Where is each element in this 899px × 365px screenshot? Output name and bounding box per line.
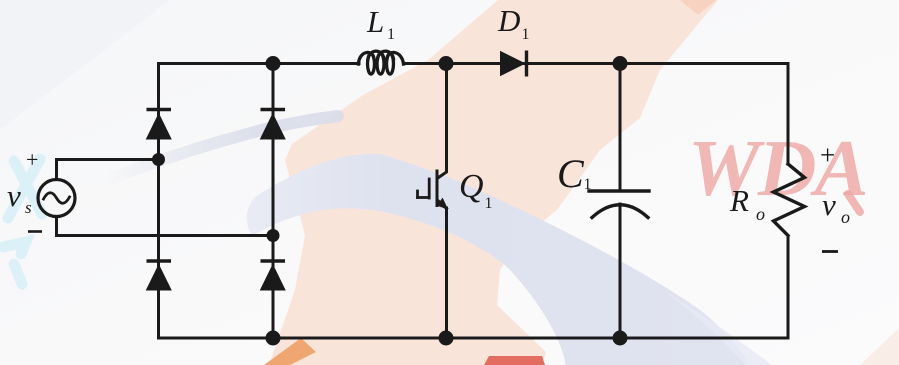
node junction top-2 (L1/Q1) — [439, 56, 454, 71]
diode bridge bottom-left — [147, 261, 172, 290]
lavender thin arc — [112, 116, 338, 178]
wire top rail right of inductor — [404, 62, 789, 65]
node junction bottom-1 — [266, 331, 281, 346]
wire right column bottom — [787, 236, 790, 338]
blue outer wisp bottom — [660, 288, 772, 365]
label vo — [822, 187, 850, 227]
source Vs — [38, 180, 75, 217]
svg-text:1: 1 — [485, 195, 493, 212]
orange bolt tip bottom-left — [264, 338, 316, 365]
wire C1 top — [619, 64, 622, 192]
svg-text:o: o — [841, 207, 850, 227]
lavender crescent swoosh — [247, 154, 748, 365]
diode bridge bottom-right — [261, 261, 286, 290]
wire Q1 emitter — [445, 208, 448, 338]
svg-text:L: L — [366, 4, 384, 39]
svg-text:C: C — [557, 151, 585, 196]
wire Q1 collector — [438, 64, 447, 179]
label minus source — [28, 230, 42, 233]
transistor Q1 — [418, 171, 447, 209]
resistor Ro — [774, 164, 805, 236]
wire second bridge column — [272, 64, 275, 339]
diode bridge top-right — [261, 110, 286, 140]
red sliver bottom — [484, 356, 545, 365]
node source minus — [267, 229, 280, 242]
wire C1 bottom — [619, 204, 622, 338]
label Ro — [729, 183, 765, 224]
svg-text:1: 1 — [387, 26, 395, 43]
svg-text:WDA: WDA — [688, 123, 867, 213]
label vs — [7, 178, 32, 217]
wire bottom rail — [159, 337, 789, 340]
wire source minus lead — [57, 217, 274, 236]
svg-text:+: + — [26, 147, 38, 172]
capacitor C1 — [589, 191, 649, 218]
label Q1 — [459, 168, 493, 212]
salmon lightning bolt — [269, 0, 718, 365]
node junction top-3 (D1/C1) — [613, 56, 628, 71]
cyan mark left edge — [3, 159, 42, 284]
label minus output — [822, 250, 838, 253]
label D1 — [497, 3, 530, 43]
svg-text:v: v — [822, 187, 836, 222]
label L1 — [366, 4, 395, 43]
diode bridge top-left — [147, 110, 172, 140]
wire top rail — [159, 62, 360, 65]
wire left bridge column — [157, 64, 160, 339]
svg-text:s: s — [25, 198, 32, 217]
svg-text:v: v — [7, 178, 21, 213]
inductor L1 — [359, 51, 404, 74]
svg-text:R: R — [729, 183, 749, 218]
node junction bottom-3 — [613, 331, 628, 346]
svg-text:1: 1 — [584, 176, 592, 193]
wire source plus lead — [57, 160, 159, 180]
deep salmon top tip — [680, 0, 716, 15]
svg-text:Q: Q — [459, 168, 484, 205]
node junction bottom-2 — [439, 331, 454, 346]
node source plus — [152, 153, 165, 166]
svg-text:D: D — [497, 3, 520, 38]
wire right column top — [787, 64, 790, 165]
node junction top-1 — [266, 56, 281, 71]
diode D1 — [501, 51, 527, 77]
svg-text:1: 1 — [522, 26, 530, 43]
label C1 — [557, 151, 592, 196]
svg-text:+: + — [820, 140, 835, 170]
pink wisp bottom-right corner — [860, 328, 899, 365]
transistor Q1 emitter arrow — [437, 198, 448, 210]
svg-text:o: o — [756, 204, 765, 224]
